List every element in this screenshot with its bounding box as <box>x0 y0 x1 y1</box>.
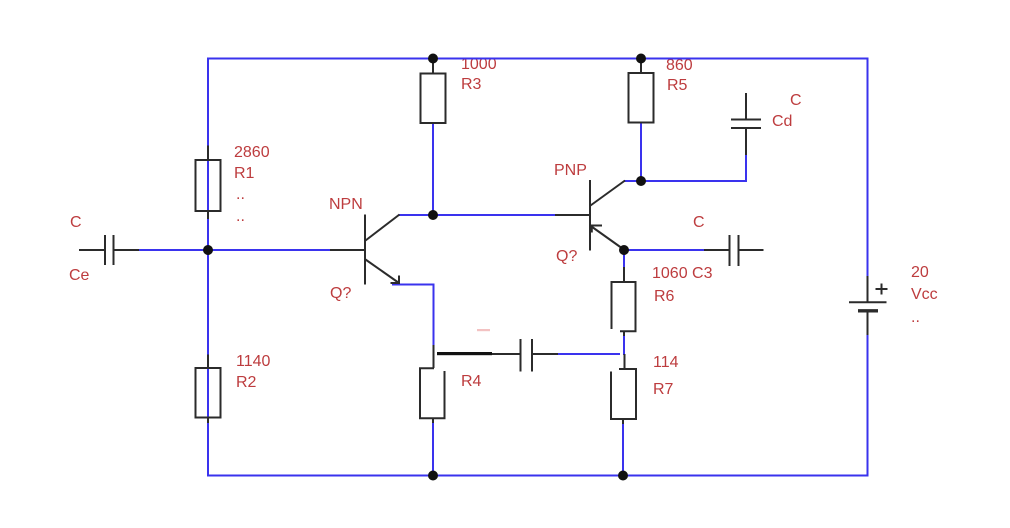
svg-text:1060 C3: 1060 C3 <box>652 265 713 282</box>
svg-text:R5: R5 <box>667 77 688 94</box>
wire: right rail below battery <box>867 335 869 477</box>
wire: NPN emitter horizontal <box>392 284 435 286</box>
wire: input cap to left node <box>138 249 208 251</box>
capacitor C3 (output right of PNP emitter) <box>704 235 764 266</box>
battery Vcc <box>849 276 888 335</box>
capacitor Ce (input) <box>79 235 139 265</box>
wire: PNP collector to node <box>624 180 641 182</box>
wire: R3 bottom to collector node <box>432 123 434 216</box>
svg-text:R6: R6 <box>654 288 675 305</box>
svg-text:R2: R2 <box>236 374 257 391</box>
wire: thick black stub left of C4 <box>437 352 492 355</box>
svg-text:C: C <box>693 214 705 231</box>
node: PNP emitter / R6 / C3 <box>619 245 629 255</box>
svg-text:C: C <box>790 92 802 109</box>
svg-text:860: 860 <box>666 57 693 74</box>
resistor R6 <box>612 267 636 336</box>
svg-text:Q?: Q? <box>556 248 577 265</box>
wire: top rail <box>208 58 868 60</box>
svg-text:1140: 1140 <box>236 353 271 370</box>
svg-text:..: .. <box>236 186 245 203</box>
resistor R2 <box>196 355 221 424</box>
wire: Cd corner vertical <box>745 154 747 182</box>
wire: between R6 and R7 <box>623 335 625 355</box>
capacitor C4 (R4 to R7 coupling) <box>492 339 558 372</box>
wire: R5 bottom to PNP collector node <box>640 122 642 182</box>
resistor R4 <box>420 345 445 423</box>
svg-text:R3: R3 <box>461 76 482 93</box>
node: PNP collector / R5 / Cd <box>636 176 646 186</box>
wire: R7 bottom to bottom rail <box>622 423 624 476</box>
svg-text:..: .. <box>911 309 920 326</box>
transistor Q? PNP <box>555 180 625 251</box>
wire: PNP emitter node to C3 <box>624 249 705 251</box>
svg-text:R7: R7 <box>653 381 674 398</box>
wire: left node to NPN base <box>208 249 330 251</box>
wire: right rail above battery <box>867 58 869 277</box>
svg-text:PNP: PNP <box>554 162 587 179</box>
node: left bias node (R1/R2/Ce/base) <box>203 245 213 255</box>
node: top rail at R3 <box>428 54 438 64</box>
decorative faint pink dash above C4 <box>477 329 490 331</box>
wire: bottom rail <box>208 475 868 477</box>
svg-text:Cd: Cd <box>772 113 792 130</box>
svg-text:Vcc: Vcc <box>911 286 938 303</box>
node: top rail at R5 <box>636 54 646 64</box>
svg-text:Q?: Q? <box>330 285 351 302</box>
svg-text:2860: 2860 <box>234 144 270 161</box>
wire: NPN collector to PNP base <box>399 214 555 216</box>
wire: NPN emitter down to R4 <box>433 285 435 346</box>
svg-text:20: 20 <box>911 264 929 281</box>
wire: PNP emitter node down to R6 <box>623 250 625 267</box>
resistor R7 <box>611 354 636 424</box>
svg-text:R4: R4 <box>461 373 482 390</box>
svg-text:C: C <box>70 214 82 231</box>
transistor Q? NPN <box>330 215 400 285</box>
wire: left rail vertical <box>207 58 209 477</box>
wire: PNP collector node to Cd corner <box>641 180 747 182</box>
wire: R4 bottom to bottom rail <box>432 422 434 476</box>
node: bottom rail at R4 <box>428 471 438 481</box>
svg-text:R1: R1 <box>234 165 255 182</box>
svg-text:NPN: NPN <box>329 196 363 213</box>
resistor R3 <box>421 62 446 123</box>
svg-text:..: .. <box>236 208 245 225</box>
svg-text:Ce: Ce <box>69 267 90 284</box>
wire: coupling cap to R6/R7 junction <box>557 353 620 355</box>
capacitor Cd <box>731 93 761 155</box>
resistor R1 <box>196 146 221 220</box>
svg-text:114: 114 <box>653 354 679 371</box>
resistor R5 <box>629 62 654 123</box>
node: bottom rail at R7 <box>618 471 628 481</box>
node: NPN collector / PNP base <box>428 210 438 220</box>
